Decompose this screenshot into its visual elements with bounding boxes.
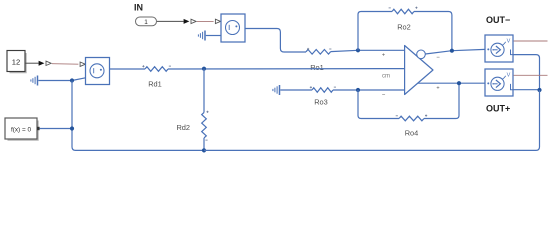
- filled arrowhead: [39, 61, 45, 66]
- svg-text:V: V: [507, 73, 511, 79]
- wire Ro3 to opamp minus: [333, 89, 405, 91]
- wire node B down to bottom rail: [72, 81, 204, 151]
- resistor Ro1: [306, 50, 331, 55]
- wire IN signal: [157, 20, 184, 22]
- PS line (red): [52, 63, 78, 65]
- voltage sensor OUT-: [485, 35, 513, 62]
- svg-text:Rd2: Rd2: [176, 123, 190, 132]
- constant block 12: [7, 51, 26, 73]
- ground G1: [198, 31, 221, 41]
- svg-text:Rd1: Rd1: [148, 80, 162, 89]
- wire f(x)=0 to node C: [40, 128, 72, 130]
- ground G2: [31, 76, 72, 86]
- hollow arrowhead at source input: [80, 62, 85, 66]
- svg-text:OUT+: OUT+: [486, 104, 510, 114]
- polarity marks Rd1: [142, 65, 171, 67]
- resistor Rd2: [202, 113, 207, 138]
- resistor Rd1: [145, 67, 168, 72]
- opamp + output wire: [415, 82, 485, 84]
- polarity marks Ro4: [396, 115, 428, 117]
- svg-text:+: +: [436, 86, 439, 92]
- feedback loop wire Ro2: [358, 12, 392, 51]
- PS line (red): [197, 20, 214, 22]
- svg-text:OUT−: OUT−: [486, 15, 510, 25]
- svg-text:cm: cm: [382, 73, 390, 79]
- polarity marks Rd2: [205, 111, 208, 140]
- wire ground node to U2 minus: [72, 78, 86, 81]
- wire U1 output to node A: [245, 29, 306, 53]
- node G junction (+ output): [457, 81, 461, 85]
- hollow arrowhead at source input: [215, 19, 220, 23]
- wire OUT- minus to right rail: [513, 55, 540, 90]
- op-amp U3: [405, 46, 433, 95]
- resistor Ro2: [392, 9, 414, 14]
- svg-text:1: 1: [144, 19, 148, 26]
- wire Rd1 to cm line: [168, 68, 405, 70]
- svg-text:Ro4: Ro4: [405, 129, 419, 138]
- label cm box: [382, 73, 390, 79]
- resistor Ro4: [399, 116, 424, 121]
- feedback loop wire Ro4: [358, 90, 399, 119]
- node I junction (right rail): [537, 88, 541, 92]
- wire OUT+ minus to right rail: [513, 89, 540, 91]
- polarity marks Ro1: [307, 48, 331, 50]
- node H junction (- output): [450, 49, 454, 53]
- filled arrowhead: [184, 19, 190, 24]
- resistor Ro3: [312, 88, 333, 93]
- svg-text:IN: IN: [134, 3, 143, 13]
- svg-text:Ro3: Ro3: [314, 98, 328, 107]
- controlled voltage source U1: [221, 14, 245, 42]
- wire Ro2 to output node: [414, 12, 452, 51]
- PS output line OUT- (red): [514, 40, 548, 42]
- ground G3: [273, 85, 312, 95]
- inport block 1 (IN): [136, 17, 157, 26]
- hollow arrowhead: [191, 19, 196, 23]
- svg-text:Ro1: Ro1: [310, 63, 324, 72]
- voltage sensor OUT+: [485, 69, 513, 96]
- controlled voltage source U2: [86, 58, 110, 85]
- wire 12 signal: [25, 62, 39, 64]
- polarity marks Ro3: [310, 86, 336, 88]
- node C junction: [70, 126, 74, 130]
- wire Rd2 to bottom rail: [203, 138, 205, 150]
- svg-text:+: +: [382, 53, 385, 59]
- PS output line OUT+ (red): [514, 74, 548, 76]
- opamp - output wire: [425, 49, 485, 54]
- hollow arrowhead: [46, 61, 51, 65]
- svg-text:−: −: [382, 93, 386, 99]
- node D junction (cm / Rd2): [202, 67, 206, 71]
- wire U2 output (Rd1 lead): [110, 68, 146, 70]
- node E junction (bottom rail): [202, 148, 206, 152]
- svg-text:Ro2: Ro2: [397, 23, 411, 32]
- wire Ro1 to opamp +: [331, 50, 405, 51]
- svg-text:12: 12: [12, 57, 20, 66]
- node F junction: [356, 88, 360, 92]
- solver configuration block f(x)=0: [5, 118, 40, 140]
- node A junction: [356, 48, 360, 52]
- svg-text:−: −: [436, 55, 440, 61]
- svg-text:f(x) = 0: f(x) = 0: [11, 126, 32, 133]
- wire node D down to Rd2: [203, 69, 205, 113]
- opamp output circle: [417, 50, 426, 59]
- node B junction: [70, 78, 74, 82]
- wire Ro4 to output + node: [424, 83, 459, 118]
- right rail down and bottom rail: [204, 90, 540, 150]
- svg-text:V: V: [507, 39, 511, 45]
- polarity marks Ro2: [389, 7, 418, 9]
